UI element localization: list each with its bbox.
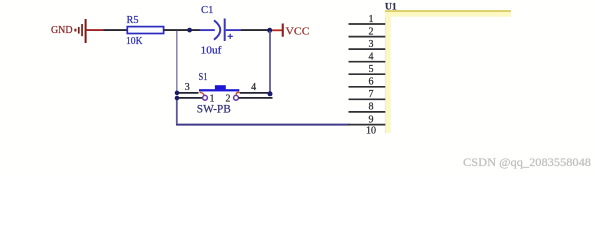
connector U1 pin 2 xyxy=(349,26,386,37)
connector U1 pin 5 xyxy=(349,64,386,75)
wire GND to R5 xyxy=(104,29,128,31)
svg-text:GND: GND xyxy=(51,25,73,36)
connector U1 body top dark-yellow edge xyxy=(385,10,511,12)
switch S1 pin 4 lead xyxy=(240,92,269,94)
switch S1 right red arc xyxy=(236,92,240,95)
svg-text:R5: R5 xyxy=(127,15,139,26)
svg-text:4: 4 xyxy=(251,82,256,93)
svg-text:10uf: 10uf xyxy=(201,46,223,57)
svg-text:1: 1 xyxy=(369,14,374,25)
switch S1 pin 2 lead xyxy=(239,97,273,99)
switch S1 pin 3 lead xyxy=(178,92,199,94)
svg-text:9: 9 xyxy=(369,114,374,125)
wire R5 to node A xyxy=(164,29,200,31)
capacitor C1 plus sign xyxy=(228,34,233,39)
svg-text:6: 6 xyxy=(369,77,374,88)
wire bottom rail to connector pin 9 xyxy=(176,124,350,126)
wire switch left down to bottom rail xyxy=(176,98,178,124)
svg-text:3: 3 xyxy=(185,82,190,93)
connector U1 pin 7 xyxy=(349,89,386,100)
svg-text:4: 4 xyxy=(369,52,374,63)
svg-text:2: 2 xyxy=(369,26,374,37)
switch S1 button bar xyxy=(199,89,239,91)
capacitor C1 straight plate xyxy=(224,19,226,42)
wire C1 to node B xyxy=(241,29,270,31)
connector U1 body left faint edge xyxy=(384,17,386,133)
switch S1 pin 2 contact circle xyxy=(234,95,239,100)
connector U1 pin 6 xyxy=(349,77,386,88)
svg-text:3: 3 xyxy=(369,39,374,50)
node: switch right junction dot xyxy=(268,91,273,96)
power port VCC lead xyxy=(272,29,282,31)
connector U1 pin 1 xyxy=(349,14,386,25)
wire node B down to switch (vertical) xyxy=(269,31,271,93)
node B junction dot xyxy=(267,28,272,33)
svg-text:C1: C1 xyxy=(201,5,214,16)
connector U1 pin 4 xyxy=(349,52,386,63)
capacitor C1 left lead (blue) xyxy=(200,29,215,31)
connector U1 pin 8 xyxy=(349,102,386,113)
switch S1 pin 1 contact circle xyxy=(203,95,208,100)
switch S1 button hump xyxy=(215,85,226,89)
capacitor C1 curved plate xyxy=(214,20,220,39)
capacitor C1 right lead (blue) xyxy=(226,29,241,31)
node: switch left lower junction dot xyxy=(175,96,180,101)
resistor R5 body xyxy=(127,27,163,34)
svg-text:SW-PB: SW-PB xyxy=(197,104,231,116)
svg-text:10K: 10K xyxy=(126,36,143,47)
svg-text:7: 7 xyxy=(369,89,374,100)
connector U1 body top pale band xyxy=(385,12,511,17)
svg-text:5: 5 xyxy=(369,64,374,75)
node A junction dot xyxy=(187,28,192,33)
connector U1 pin 3 xyxy=(349,39,386,50)
svg-text:10: 10 xyxy=(366,126,376,137)
connector U1 pin 9 xyxy=(349,114,386,125)
svg-text:VCC: VCC xyxy=(286,25,310,37)
wire node A down to switch (vertical) xyxy=(176,31,178,92)
switch S1 pin 1 lead xyxy=(178,97,202,99)
switch S1 left red arc xyxy=(200,92,205,95)
connector U1 body left pale strip xyxy=(385,12,391,133)
wire GND red lead xyxy=(87,29,104,31)
power port VCC bar xyxy=(282,24,284,37)
node: switch left upper junction dot xyxy=(175,91,180,96)
power port GND symbol bars xyxy=(74,19,86,43)
svg-text:8: 8 xyxy=(369,102,374,113)
svg-text:CSDN @qq_2083558048: CSDN @qq_2083558048 xyxy=(463,157,591,169)
svg-text:S1: S1 xyxy=(199,72,208,83)
